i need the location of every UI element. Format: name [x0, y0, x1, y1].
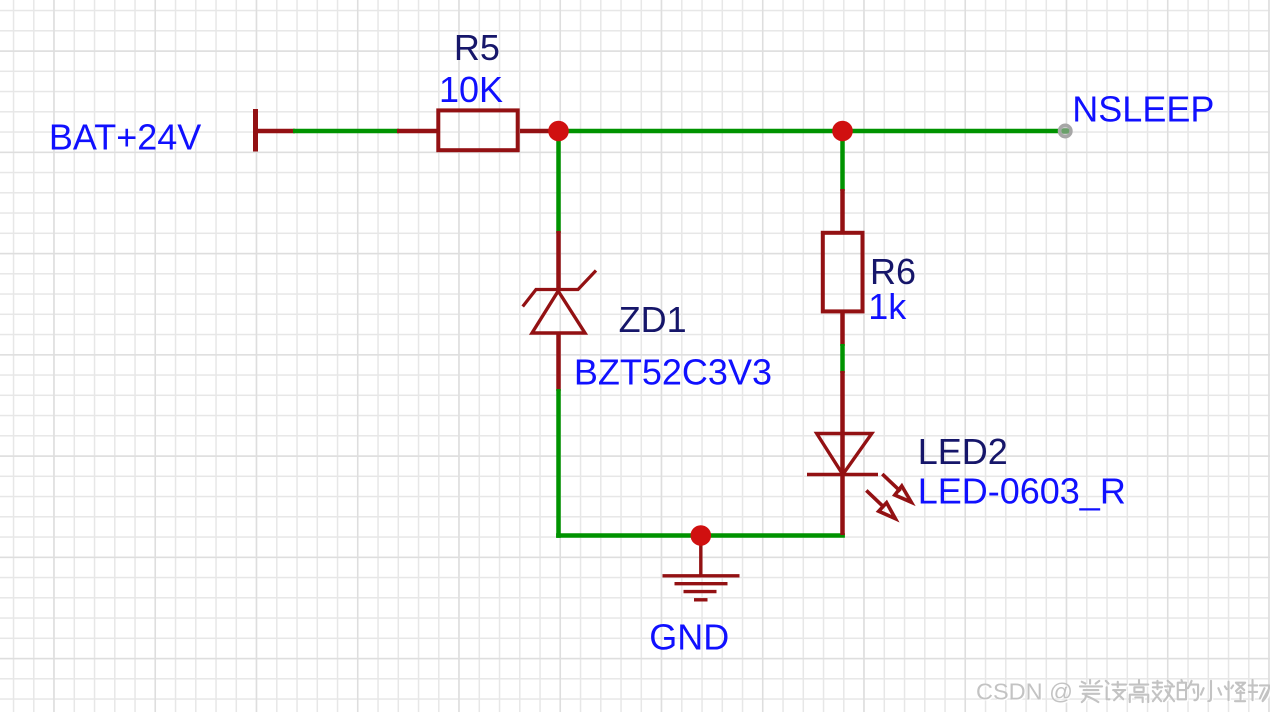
- svg-text:CSDN @: CSDN @: [976, 679, 1073, 705]
